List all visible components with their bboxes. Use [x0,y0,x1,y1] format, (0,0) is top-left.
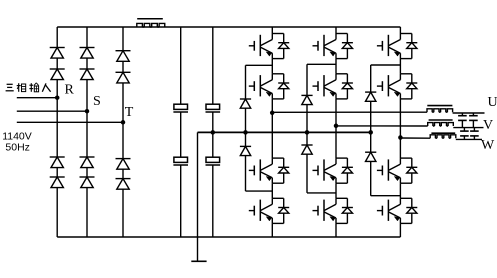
wire capacitor C3/C4 column lower lead [212,166,214,238]
diode D12 [116,179,131,190]
capacitor C2 [173,157,188,165]
wire leg1 collector lead [271,27,273,34]
wire leg2 Q7-Q8 link [335,183,337,198]
wire leg2 Q5-Q6 link [335,59,337,74]
wire phase V to terminal [453,127,483,129]
transistor Q12 IGBT [377,198,417,223]
inductor L4 phase W filter [430,133,456,138]
inductor L3 phase V filter [428,120,454,126]
label 50Hz [5,142,30,154]
wire leg1 lower clamp jog [246,190,273,192]
node V output junction [334,124,339,129]
wire leg1 clamp column [245,65,247,191]
wire capacitor C1/C2 column middle lead [180,112,182,158]
wire phase U output [272,111,427,113]
wire leg3 collector lead [399,27,401,34]
diode D16 clamp [301,145,312,154]
wire leg1 emitter lead [271,223,273,237]
node leg1 neutral junction [243,130,248,135]
wire leg2 upper clamp jog [307,63,336,65]
node label U [488,95,497,110]
label three-phase-input char2 [17,83,26,92]
transistor Q11 IGBT [377,158,417,183]
node label W [481,138,495,153]
wire leg1 Q3-Q4 link [271,183,273,198]
node T junction [121,120,126,125]
wire neutral bus [198,131,371,133]
diode D18 clamp [365,152,376,161]
node label S [93,94,101,109]
diode D11 [116,159,131,170]
label 1140V [2,131,32,143]
transistor Q8 IGBT [313,198,353,223]
node U output junction [270,111,275,116]
ground [191,260,206,262]
wire leg2 lower clamp jog [307,192,336,194]
wire phase S input [17,110,87,112]
svg-text:V: V [483,118,493,133]
wire leg1 output column [271,99,273,158]
transistor Q9 IGBT [377,34,417,59]
transistor Q1 IGBT [249,34,289,59]
label three-phase-input char1 [6,84,14,91]
diode D13 clamp [240,99,251,108]
wire leg1 Q1-Q2 link [271,59,273,74]
transistor Q10 IGBT [377,74,417,99]
svg-text:W: W [481,138,495,153]
node leg3 neutral junction [368,130,373,135]
wire top DC bus + [57,26,400,28]
wire capacitor C3/C4 column middle lead [212,112,214,158]
node W output junction [398,135,403,140]
wire phase U to terminal [453,112,485,114]
transistor Q2 IGBT [249,74,289,99]
diode D17 clamp [365,92,376,101]
node label V [483,118,493,133]
wire capacitor C3/C4 column upper lead [212,27,214,104]
wire leg2 collector lead [335,27,337,34]
transistor Q7 IGBT [313,158,353,183]
wire neutral drop to ground [197,132,199,261]
diode D5 [80,48,95,59]
node R junction [55,95,60,100]
label three-phase-input char3 [29,83,38,92]
diode D2 [50,69,65,80]
wire leg3 lower clamp jog [371,195,401,197]
wire phase T input [17,121,123,123]
wire capacitor C1/C2 column upper lead [180,27,182,104]
capacitor C5 U-V [458,113,467,128]
transistor Q3 IGBT [249,158,289,183]
inductor L1 DC link reactor [137,19,165,27]
node label T [125,105,134,120]
wire phase R input [17,97,57,99]
diode D6 [80,69,95,80]
capacitor C8 V-W [470,128,479,140]
wire capacitor C1/C2 column lower lead [180,166,182,238]
wire phase W output [400,137,430,139]
capacitor C3 [206,104,221,112]
wire rectifier leg S column [86,27,88,237]
diode D3 [50,157,65,168]
wire leg3 Q9-Q10 link [399,59,401,74]
node neutral-C3 junction [211,130,216,135]
wire leg1 upper clamp jog [246,64,273,66]
wire leg3 output column [399,99,401,158]
inductor L2 phase U filter [427,106,453,113]
diode D9 [116,51,131,62]
node label R [65,83,75,98]
svg-text:S: S [93,94,101,109]
wire leg3 clamp column [370,65,372,196]
transistor Q4 IGBT [249,198,289,223]
transistor Q5 IGBT [313,34,353,59]
capacitor C7 V-W [460,128,469,140]
diode D1 [50,48,65,59]
svg-text:R: R [65,83,75,98]
capacitor C4 [206,157,221,165]
svg-text:T: T [125,105,134,120]
wire phase W to terminal [456,138,482,140]
diode D4 [50,177,65,188]
capacitor C6 U-V [469,113,478,128]
label three-phase-input char4 [42,83,50,91]
wire leg2 emitter lead [335,223,337,237]
wire leg3 Q11-Q12 link [399,183,401,198]
wire leg2 clamp column [306,64,308,193]
svg-text:U: U [488,95,497,110]
wire rectifier leg T column [122,27,124,237]
diode D14 clamp [240,146,251,155]
wire bottom DC bus - [57,236,400,238]
diode D8 [80,177,95,188]
node S junction [85,109,90,114]
diode D10 [116,72,131,83]
wire leg3 upper clamp jog [371,64,401,66]
svg-text:50Hz: 50Hz [5,142,30,154]
capacitor C1 [173,104,188,112]
diode D15 clamp [301,95,312,104]
wire leg2 output column [335,99,337,158]
transistor Q6 IGBT [313,74,353,99]
wire leg3 emitter lead [399,223,401,237]
wire rectifier leg R column [56,27,58,237]
diode D7 [80,157,95,168]
wire phase V output [336,125,428,127]
node leg2 neutral junction [305,130,310,135]
